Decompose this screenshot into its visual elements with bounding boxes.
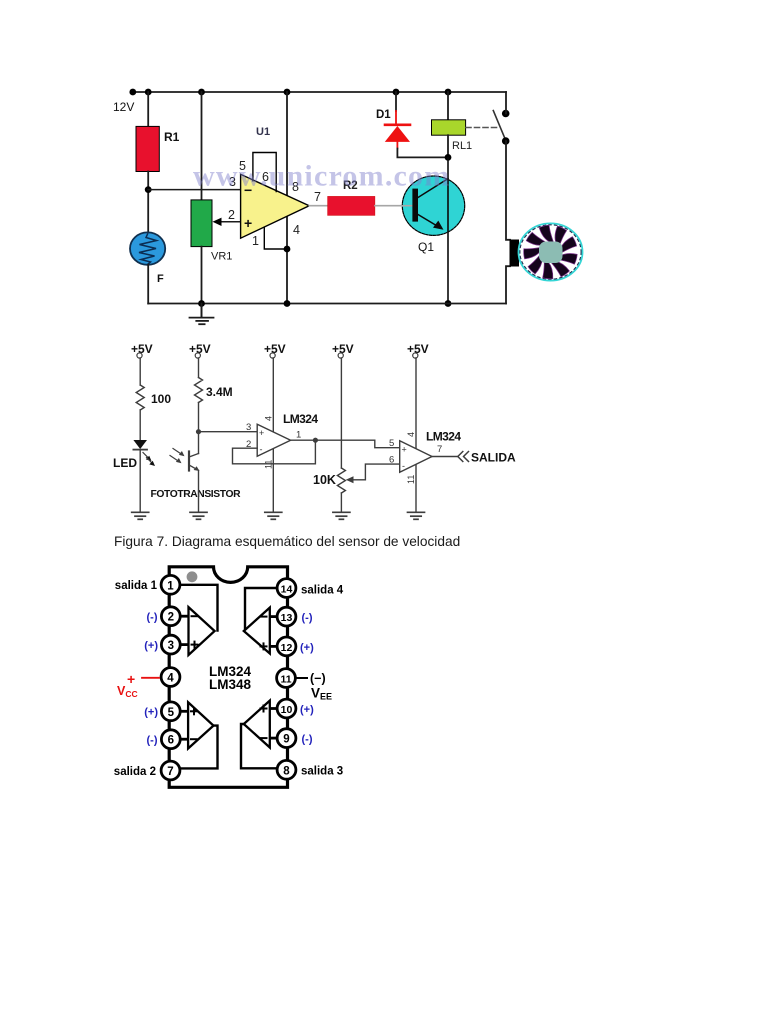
LED	[133, 440, 155, 466]
wire D1 lower	[397, 142, 448, 158]
label pin 5	[239, 159, 246, 173]
op-amp C triangle	[244, 701, 270, 748]
wire node to pin3	[148, 189, 240, 191]
node 12V terminal dot	[129, 89, 136, 96]
label 3.4M	[206, 385, 233, 399]
svg-text:11: 11	[406, 475, 416, 484]
svg-text:LM324: LM324	[283, 412, 318, 426]
node terminal circle col3	[270, 353, 275, 358]
node D1 top junction	[393, 89, 400, 96]
label Q1	[418, 240, 434, 254]
svg-text:10: 10	[281, 704, 293, 716]
relay coil RL1	[432, 120, 466, 135]
svg-text:+: +	[259, 428, 264, 438]
label pin 2	[228, 208, 235, 222]
label pin12 noninverting	[300, 642, 314, 654]
switch contact top dot	[502, 110, 510, 118]
svg-text:2: 2	[228, 208, 235, 222]
wire pin1 loop	[264, 227, 287, 249]
wire output opamp C	[241, 724, 279, 768]
salida chevrons	[458, 452, 469, 462]
label pin9 inverting	[302, 734, 313, 746]
label op1 pin1	[296, 430, 301, 441]
wire col3 vertical	[272, 358, 274, 512]
wire VR1 branch upper	[201, 92, 203, 201]
node opamp bottom junction	[284, 300, 291, 307]
label U1	[256, 126, 270, 138]
wire output opamp A	[178, 585, 218, 631]
svg-text:LM348: LM348	[209, 677, 252, 692]
node VR1 bottom junction	[198, 300, 205, 307]
power +5V column4	[332, 342, 354, 356]
svg-text:11: 11	[280, 674, 291, 686]
node pin1 loop junction	[284, 246, 291, 253]
photoresistor F	[130, 232, 165, 264]
label LM324 A	[283, 412, 318, 426]
wire RL1 branch upper	[447, 92, 449, 121]
resistor 100	[136, 385, 144, 410]
power +5V column2	[189, 342, 211, 356]
label LED	[113, 456, 137, 470]
svg-text:7: 7	[167, 766, 173, 778]
label op1 pin2	[246, 439, 251, 450]
potentiometer VR1	[191, 200, 212, 247]
IC body LM324	[169, 567, 287, 788]
label pin 7	[314, 190, 321, 204]
svg-text:4: 4	[264, 416, 274, 421]
op-amp LM324 B	[400, 441, 432, 473]
label R2	[343, 180, 358, 192]
label Vcc plus	[127, 671, 135, 687]
label LM324 center	[209, 664, 252, 679]
label op2 pin6	[389, 455, 394, 466]
label R1	[164, 130, 180, 144]
wire R2 to Q1 gray	[375, 205, 413, 207]
pin 9	[277, 729, 296, 748]
svg-text:8: 8	[283, 765, 290, 777]
switch contact bottom dot	[502, 137, 510, 145]
label 10K	[313, 473, 336, 487]
pin 11	[277, 669, 296, 688]
op-amp D triangle	[244, 608, 270, 654]
label LM324 B	[426, 430, 461, 444]
label op2 pin5	[389, 438, 394, 449]
label op2 plus	[402, 445, 407, 455]
node R1 top junction	[145, 89, 152, 96]
wire top rail	[133, 91, 506, 93]
svg-text:FOTOTRANSISTOR: FOTOTRANSISTOR	[151, 489, 242, 500]
node terminal circle col2	[195, 353, 200, 358]
svg-text:5: 5	[168, 707, 175, 719]
switch arm	[493, 111, 504, 138]
ground col4	[333, 512, 350, 519]
resistor 3.4M	[195, 378, 203, 403]
node terminal circle col4	[338, 353, 343, 358]
svg-text:1: 1	[296, 430, 301, 441]
label pin 4	[293, 223, 300, 237]
svg-text:6: 6	[389, 455, 394, 466]
ground col5	[408, 512, 425, 519]
svg-text:U1: U1	[256, 126, 270, 138]
stub pin10	[269, 707, 279, 710]
label pin 8	[292, 180, 299, 194]
svg-text:(-): (-)	[302, 612, 313, 624]
svg-text:7: 7	[437, 444, 442, 455]
svg-text:www.unicrom.com: www.unicrom.com	[193, 160, 450, 193]
label salida 3	[301, 766, 343, 778]
svg-text:3.4M: 3.4M	[206, 385, 233, 399]
label op2 pin7	[437, 444, 442, 455]
wire op2 output	[432, 456, 457, 458]
node RL1 top junction	[445, 89, 452, 96]
pin 4	[161, 668, 180, 687]
svg-text:1: 1	[252, 234, 259, 248]
label op1 minus	[260, 445, 263, 455]
svg-text:-: -	[260, 445, 263, 455]
wire opamp rail branch	[286, 92, 288, 304]
svg-text:12V: 12V	[113, 100, 134, 114]
node R1/F junction	[145, 186, 152, 193]
label pin13 inverting	[302, 612, 313, 624]
svg-text:(+): (+)	[144, 640, 158, 652]
svg-text:(+): (+)	[144, 707, 158, 719]
label pin5 noninverting	[144, 707, 158, 719]
svg-text:4: 4	[293, 223, 300, 237]
label pin6 inverting	[147, 735, 158, 747]
wire right branch	[506, 92, 510, 304]
motor mount block	[510, 240, 520, 267]
stub pin9	[269, 737, 279, 740]
label 12V	[113, 100, 134, 114]
node col2 junction	[196, 429, 201, 434]
svg-text:3: 3	[246, 422, 251, 433]
wire col5 vertical	[415, 358, 417, 512]
node terminal circle col1	[137, 353, 142, 358]
svg-text:VR1: VR1	[211, 251, 232, 263]
label FOTOTRANSISTOR	[151, 489, 242, 500]
stub pin6	[179, 738, 190, 741]
wire col4 upper	[340, 358, 342, 468]
svg-text:R1: R1	[164, 130, 180, 144]
svg-text:salida 4: salida 4	[301, 585, 344, 597]
wire op1 output	[291, 439, 375, 441]
pin 14	[277, 579, 296, 598]
pin 3	[161, 635, 180, 654]
wire col2 upper	[198, 358, 200, 378]
svg-text:4: 4	[406, 432, 416, 437]
svg-text:-: -	[402, 461, 405, 471]
svg-text:+: +	[244, 215, 252, 231]
ground col1	[132, 512, 149, 519]
wire col2 middle	[198, 403, 200, 454]
label pin3 noninverting	[144, 640, 158, 652]
wire output opamp B	[178, 726, 218, 769]
svg-text:+: +	[127, 671, 135, 687]
label salida 4	[301, 585, 344, 597]
pin 6	[161, 730, 180, 749]
label 100	[151, 392, 171, 406]
svg-text:4: 4	[167, 673, 174, 685]
svg-text:(+): (+)	[300, 642, 314, 654]
label pin 3	[229, 175, 236, 189]
op-amp B triangle	[188, 702, 213, 748]
label VEE minus	[310, 672, 326, 686]
fan M1	[519, 0, 583, 281]
svg-text:5: 5	[389, 438, 394, 449]
wire R1 to F	[147, 172, 149, 234]
wire 10K wiper to op2 pin6	[346, 464, 400, 483]
svg-text:Q1: Q1	[418, 240, 434, 254]
node D1/RL1 junction	[445, 154, 452, 161]
label LM348 center	[209, 677, 252, 692]
power +5V column5	[407, 342, 429, 356]
svg-text:Figura 7. Diagrama esquemático: Figura 7. Diagrama esquemático del senso…	[114, 534, 460, 549]
wire D1 branch upper	[395, 92, 397, 124]
label op2 minus	[402, 461, 405, 471]
svg-text:(-): (-)	[147, 612, 158, 624]
label pin 1	[252, 234, 259, 248]
svg-text:F: F	[157, 273, 164, 285]
pin 2	[161, 607, 180, 626]
wire output opamp D	[245, 588, 279, 631]
svg-text:3: 3	[168, 640, 174, 652]
svg-text:9: 9	[283, 734, 289, 746]
power +5V column1	[131, 342, 153, 356]
wire VR1 to bottom rail	[201, 247, 203, 318]
wire opamp output gray	[309, 205, 328, 207]
pin 8	[277, 760, 296, 779]
pin 10	[277, 699, 296, 718]
svg-text:(-): (-)	[147, 735, 158, 747]
stub pin2	[179, 615, 190, 618]
wire Vcc red lead	[142, 677, 159, 679]
label RL1	[452, 140, 472, 152]
diode D1	[385, 125, 410, 142]
node opamp rail junction	[284, 89, 291, 96]
resistor R2	[328, 196, 375, 215]
wire VR1 wiper arrow	[213, 218, 241, 226]
wire R1 branch upper	[147, 92, 149, 127]
svg-text:6: 6	[168, 735, 174, 747]
watermark www.unicrom.com	[193, 160, 450, 193]
op-amp LM324 A	[257, 424, 290, 456]
label pin10 noninverting	[300, 704, 314, 716]
wire col2 lower	[198, 471, 200, 513]
svg-text:(−): (−)	[310, 672, 326, 686]
svg-text:100: 100	[151, 392, 171, 406]
fototransistor	[170, 449, 200, 472]
stub pin13	[269, 615, 279, 618]
wire col1 lower	[139, 450, 141, 512]
op-amp A triangle	[189, 607, 215, 655]
label op1 pin3	[246, 422, 251, 433]
svg-text:LM324: LM324	[426, 430, 461, 444]
wire bottom rail	[148, 303, 506, 305]
svg-text:RL1: RL1	[452, 140, 472, 152]
svg-text:salida 1: salida 1	[115, 580, 158, 592]
svg-text:14: 14	[281, 584, 293, 596]
wire col1 middle	[139, 410, 141, 440]
label salida 1	[115, 580, 158, 592]
node Q1 bottom junction	[445, 300, 452, 307]
wire RL1 to collector node	[447, 135, 449, 157]
pin1 marker dot	[187, 571, 198, 582]
label VR1	[211, 251, 232, 263]
svg-text:12: 12	[281, 642, 293, 654]
pin 1	[161, 575, 180, 594]
svg-text:D1: D1	[376, 109, 391, 121]
label SALIDA	[471, 451, 516, 465]
svg-text:13: 13	[281, 612, 293, 624]
svg-text:salida 3: salida 3	[301, 766, 343, 778]
ground col3	[265, 512, 282, 519]
label op1 pin4	[264, 416, 274, 421]
potentiometer 10K	[337, 468, 345, 493]
pin 7	[161, 761, 180, 780]
resistor R1	[136, 126, 159, 171]
label salida 2	[114, 766, 156, 778]
label plus input	[244, 215, 252, 231]
wire F to bottom rail	[147, 265, 149, 304]
label pin2 inverting	[147, 612, 158, 624]
label D1	[376, 109, 391, 121]
wire dashed relay link	[466, 127, 498, 129]
label VEE	[311, 686, 332, 702]
pin 5	[161, 702, 180, 721]
svg-text:SALIDA: SALIDA	[471, 451, 516, 465]
stub pin12	[269, 645, 279, 648]
label op2 pin11	[406, 475, 416, 484]
wire output jog to op2 pin5	[375, 440, 400, 448]
node op1 output junction	[313, 438, 318, 443]
op-amp U1	[241, 174, 310, 238]
label minus input	[244, 182, 252, 198]
label op1 pin11	[264, 460, 274, 469]
wire node to op1 pin3	[199, 431, 258, 433]
label op1 plus	[259, 428, 264, 438]
wire collector-emitter vertical	[447, 157, 449, 303]
svg-text:2: 2	[168, 612, 174, 624]
wire pin5-6 box	[253, 153, 276, 192]
label op2 pin4	[406, 432, 416, 437]
power +5V column3	[264, 342, 286, 356]
wire op1 pin2 feedback loop	[233, 440, 316, 464]
wire VEE lead	[296, 677, 307, 679]
svg-text:1: 1	[167, 580, 174, 592]
ground col2	[190, 512, 207, 519]
svg-text:+: +	[402, 445, 407, 455]
ground	[190, 304, 214, 325]
pin 12	[277, 637, 296, 656]
pin 13	[277, 607, 296, 626]
svg-text:(-): (-)	[302, 734, 313, 746]
stub pin5	[179, 710, 190, 713]
label Vcc	[117, 684, 138, 699]
caption figura 7	[114, 534, 460, 549]
node VR1 top junction	[198, 89, 205, 96]
node terminal circle col5	[413, 353, 418, 358]
wire col1 upper	[139, 358, 141, 385]
svg-text:10K: 10K	[313, 473, 336, 487]
svg-text:(+): (+)	[300, 704, 314, 716]
label F	[157, 273, 164, 285]
stub pin3	[179, 643, 190, 646]
label pin 6	[262, 170, 269, 184]
wire col4 lower	[340, 493, 342, 512]
svg-text:LED: LED	[113, 456, 137, 470]
transistor Q1	[401, 176, 465, 235]
svg-text:salida 2: salida 2	[114, 766, 156, 778]
